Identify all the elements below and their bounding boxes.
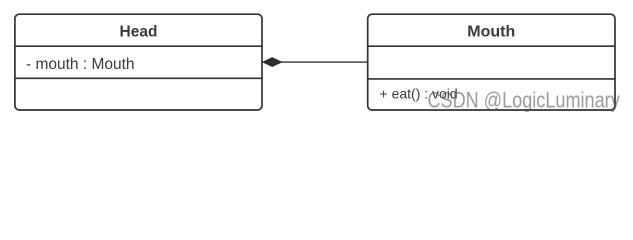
svg-text:- mouth : Mouth: - mouth : Mouth: [26, 56, 135, 73]
svg-text:CSDN @LogicLuminary: CSDN @LogicLuminary: [427, 89, 620, 113]
svg-text:Head: Head: [120, 24, 158, 41]
svg-text:Mouth: Mouth: [467, 24, 515, 41]
